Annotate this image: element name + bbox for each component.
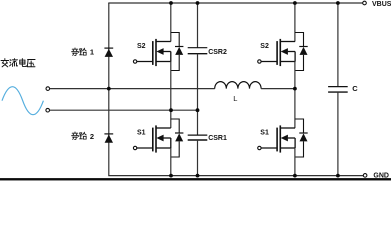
inductor L <box>215 82 261 89</box>
流 <box>10 59 18 67</box>
svg-text:GND: GND <box>373 173 389 180</box>
junction: GND rail / right leg <box>293 174 297 178</box>
svg-text:L: L <box>233 94 237 103</box>
transistor S2 (top left) <box>133 33 183 71</box>
交 <box>1 59 9 67</box>
terminal AC lower <box>46 108 50 112</box>
svg-text:CSR2: CSR2 <box>208 49 227 56</box>
capacitor C (output) <box>328 3 348 176</box>
junction: top rail / CSR leg <box>196 1 200 5</box>
wire: S2-left drain lead <box>170 3 172 42</box>
AC source sine wave <box>2 87 43 115</box>
terminal GND <box>363 174 367 178</box>
junction: inductor node / right leg <box>293 87 297 91</box>
junction: top rail / C leg <box>336 1 340 5</box>
wire: S1-left source lead to GND rail <box>170 148 172 176</box>
wire: top VBUS rail <box>108 2 362 4</box>
junction: GND rail / left leg <box>169 174 173 178</box>
svg-text:VBUS: VBUS <box>372 1 391 8</box>
terminal AC upper <box>46 87 50 91</box>
label 旁路 1 <box>72 48 95 57</box>
wire: bottom GND rail <box>108 175 363 177</box>
junction: top rail / right leg <box>293 1 297 5</box>
junction: lower AC / left leg <box>169 108 173 112</box>
旁 <box>72 48 79 56</box>
wire: inductor to right half-bridge <box>261 88 295 90</box>
压 <box>27 60 35 67</box>
wire: upper AC line to inductor <box>50 88 215 90</box>
diode bypass 2 <box>104 134 113 143</box>
路 <box>80 48 87 55</box>
junction: top rail / left leg <box>169 1 173 5</box>
wire: S2-right drain lead <box>294 3 296 42</box>
transistor S1 (bottom left) <box>133 119 183 157</box>
电 <box>20 59 27 67</box>
svg-text:C: C <box>352 84 358 93</box>
svg-text:S1: S1 <box>260 129 269 136</box>
diode bypass 1 <box>104 48 113 57</box>
capacitor CSR2 <box>188 3 208 110</box>
svg-text:S2: S2 <box>137 43 146 50</box>
svg-text:S2: S2 <box>260 43 269 50</box>
junction: GND rail / C leg <box>336 174 340 178</box>
wire: S1-right drain lead <box>294 89 296 128</box>
svg-text:S1: S1 <box>137 129 146 136</box>
svg-text:1: 1 <box>90 48 94 57</box>
svg-text:CSR1: CSR1 <box>208 135 227 142</box>
junction: lower AC / CSR leg <box>196 108 200 112</box>
capacitor CSR1 <box>188 110 208 175</box>
transistor S1 (bottom right) <box>258 119 308 157</box>
wire: S1-right source lead <box>294 148 296 176</box>
label 旁路 2 <box>72 132 95 141</box>
junction: GND rail / CSR leg <box>196 174 200 178</box>
wire: S2-right source lead <box>294 62 296 89</box>
wire: S1-left drain lead <box>170 110 172 128</box>
wire: left bypass branch vertical <box>108 3 110 176</box>
terminal VBUS <box>363 1 367 5</box>
wire: lower AC line <box>50 109 198 111</box>
label 交流电压 (AC voltage) <box>1 59 35 67</box>
wire: S2-left source lead down to lower AC line <box>170 62 172 111</box>
transistor S2 (top right) <box>258 33 308 71</box>
junction: bypass line / upper AC <box>107 87 111 91</box>
svg-text:2: 2 <box>90 132 94 141</box>
